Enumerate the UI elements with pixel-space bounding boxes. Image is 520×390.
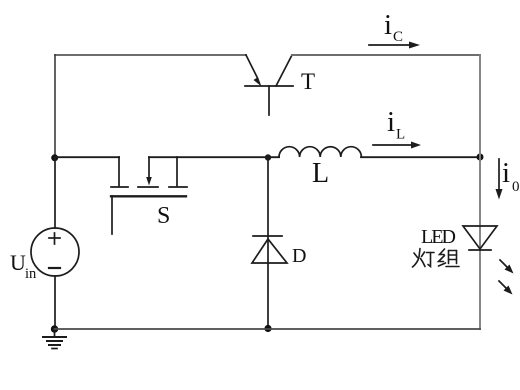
- diode D: [252, 236, 287, 263]
- svg-text:D: D: [292, 245, 306, 267]
- current arrow i_C: [369, 42, 420, 49]
- inductor L: [279, 147, 361, 157]
- mosfet S: [111, 157, 187, 234]
- transistor T: [245, 55, 293, 115]
- wire diode branch: [267, 157, 269, 328]
- wire middle rail left: [55, 156, 119, 158]
- label lamp-group glyph zu: [439, 249, 460, 267]
- wire bottom rail: [55, 328, 481, 330]
- node junction bottom-left: [51, 325, 58, 332]
- wire top rail right: [292, 54, 480, 56]
- svg-text:LED: LED: [421, 226, 456, 248]
- node junction inductor-left: [265, 154, 271, 160]
- node junction diode-bottom: [264, 325, 271, 332]
- label U_in: [10, 250, 37, 282]
- wire top rail left: [55, 54, 246, 56]
- ground: [43, 329, 66, 349]
- svg-text:0: 0: [512, 179, 520, 195]
- svg-text:i: i: [387, 106, 395, 138]
- svg-text:T: T: [301, 69, 315, 94]
- label i_L: [387, 106, 405, 143]
- current arrow i_L: [373, 142, 421, 149]
- svg-text:C: C: [393, 29, 403, 45]
- wire left rail lower: [54, 276, 56, 329]
- wire left rail to source: [54, 157, 56, 228]
- label lamp-group glyph deng: [413, 249, 435, 268]
- svg-text:in: in: [25, 266, 37, 282]
- wire left rail upper: [54, 55, 56, 157]
- node junction left-middle: [51, 154, 58, 161]
- led light arrow 2: [499, 281, 513, 295]
- wire middle rail center: [149, 156, 279, 158]
- svg-text:U: U: [10, 250, 26, 275]
- node junction right-rail: [477, 154, 484, 161]
- wire right rail: [479, 55, 481, 329]
- label i_0: [502, 157, 520, 195]
- svg-text:i: i: [384, 9, 392, 41]
- label i_C: [384, 9, 403, 45]
- led LED: [463, 226, 497, 250]
- led light arrow 1: [500, 260, 514, 274]
- svg-text:L: L: [396, 127, 405, 143]
- svg-text:S: S: [157, 203, 170, 229]
- wire middle rail right: [361, 156, 480, 158]
- current arrow i_0: [496, 159, 503, 200]
- svg-text:i: i: [502, 157, 510, 189]
- svg-text:L: L: [312, 158, 329, 189]
- voltage source U_in: [31, 228, 79, 276]
